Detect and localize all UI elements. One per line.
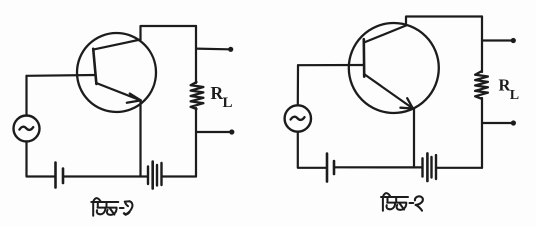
wire right rail upper [481,17,483,73]
svg-text:L: L [223,95,233,111]
wire output tap bottom [196,131,230,133]
wire right rail lower [481,98,483,168]
wire right rail lower [195,108,197,177]
wire output tap bottom [482,122,511,124]
battery B1 long plate [54,163,57,188]
wire battery B2 to right rail [162,175,197,177]
battery B2 plate 1 [147,167,149,185]
battery B3 short plate [333,161,336,174]
svg-text:L: L [510,88,519,103]
battery B4 plate 1 [421,158,423,176]
battery B4 plate 4 [435,155,437,179]
transistor Q2 body circle [349,23,439,113]
resistor RL2 coil [475,72,488,99]
wire output tap top [482,39,511,41]
battery B2 plate 3 [156,165,158,186]
battery B2 plate 4 [160,163,162,185]
transistor Q2 collector stroke [364,26,406,43]
wire emitter down [413,108,415,168]
wire base lead to Q2 [298,64,364,66]
battery B2 plate 2 [151,162,154,189]
transistor Q1 body circle [77,33,156,112]
transistor Q1 collector stroke [93,40,140,50]
wire collector to top rail [141,26,197,40]
transistor Q2 emitter stroke with arrow [364,74,413,109]
node output dot bottom [511,120,516,125]
wire V1 top to base corner [25,76,27,116]
battery B4 plate 2 [426,153,429,181]
AC source V2 [285,105,311,131]
transistor Q2 base bar [362,39,365,76]
wire V2 top to base corner [297,65,299,105]
wire bottom rail to battery B2 [63,175,148,177]
wire base lead to Q1 [27,74,96,77]
node output dot top [228,47,233,52]
transistor Q1 emitter stroke with arrow [96,83,140,100]
wire right rail upper [195,26,197,83]
resistor RL1 coil [191,82,204,109]
wire battery B4 to right rail [436,167,482,169]
label RL2 value [499,76,520,103]
battery B3 long plate [326,154,329,182]
label RL1 value [211,83,233,111]
transistor Q1 base bar [93,49,96,84]
wire collector to top rail [406,17,482,26]
caption figure-1 [91,198,132,216]
battery B1 short plate [62,169,65,184]
wire bottom rail to battery B4 [334,166,422,168]
caption figure-2 [381,193,423,211]
AC source V1 [14,116,40,142]
node output dot top [511,38,516,43]
wire V1 bottom to bottom rail [27,142,56,177]
wire output tap top [196,47,229,50]
wire emitter down [139,100,141,177]
wire V2 bottom to bottom rail [298,132,326,168]
node output dot bottom [229,129,234,134]
battery B4 plate 3 [430,157,432,178]
